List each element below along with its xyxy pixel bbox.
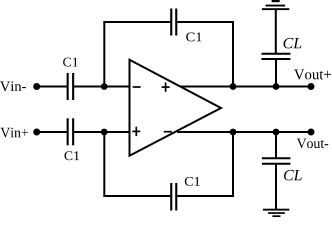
op-amp plus sign bottom input	[132, 127, 140, 136]
wire Vin- to C1	[37, 86, 67, 88]
wire top feedback right segment	[177, 22, 233, 87]
label Vout-	[297, 139, 328, 149]
wire bottom feedback left segment	[104, 132, 170, 196]
ground top	[262, 0, 289, 10]
wire bottom feedback right segment	[177, 132, 233, 196]
capacitor C1 top feedback	[171, 9, 176, 36]
ground bottom	[263, 209, 289, 217]
capacitor C1 bottom input	[68, 118, 74, 145]
label CL top	[284, 38, 302, 49]
terminal Vout+	[308, 83, 315, 90]
capacitor C1 top input	[68, 73, 74, 100]
wire C1 to op-amp non-inverting input	[74, 131, 130, 133]
wire bottom output	[177, 131, 311, 133]
op-amp plus sign top output	[162, 82, 170, 91]
label C1 top input	[63, 58, 78, 67]
wire CL top to output	[275, 60, 277, 87]
label CL bottom	[284, 170, 302, 181]
node top CL junction	[273, 83, 280, 90]
wire top ground to CL	[275, 10, 277, 54]
node bottom feedback junction	[230, 129, 237, 136]
capacitor CL bottom	[262, 158, 291, 164]
op-amp minus sign bottom output	[164, 131, 172, 133]
wire top feedback left segment	[104, 22, 170, 87]
label C1 top feedback	[186, 33, 201, 42]
label Vin-	[0, 81, 26, 91]
wire CL bottom to ground	[275, 164, 277, 209]
terminal Vin+	[33, 129, 40, 136]
capacitor CL top	[262, 54, 291, 59]
op-amp minus sign top input	[133, 86, 141, 88]
node top-left junction	[101, 83, 108, 90]
label Vin+	[1, 128, 29, 138]
wire C1 to op-amp inverting input	[74, 86, 130, 88]
terminal Vin-	[33, 83, 40, 90]
label Vout+	[294, 70, 331, 80]
capacitor C1 bottom feedback	[171, 183, 176, 211]
terminal Vout-	[308, 129, 315, 136]
label C1 bottom input	[65, 151, 80, 160]
label C1 bottom feedback	[185, 177, 200, 186]
node bottom CL junction	[273, 129, 280, 136]
wire Vin+ to C1	[37, 131, 67, 133]
node top feedback junction	[230, 83, 237, 90]
wire top output	[180, 86, 311, 88]
wire output to CL bottom	[275, 132, 277, 159]
node bottom-left junction	[101, 129, 108, 136]
op-amp U1	[130, 60, 222, 156]
